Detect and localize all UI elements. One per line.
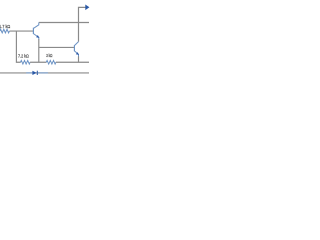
transistor Q2 collector lead: [74, 42, 78, 46]
transistor Q2 base bar: [73, 45, 75, 51]
wire R2 to R3: [30, 61, 46, 63]
diode D1 anode lead: [26, 72, 32, 74]
transistor Q2 emitter lead: [74, 51, 78, 57]
wire Q1 emitter down x38.8: [38, 39, 40, 62]
wire left vertical drop x16.4: [16, 31, 20, 62]
wire bottom rail: [0, 72, 89, 74]
resistor R1 zigzag: [0, 29, 9, 33]
wire R3 to right edge: [56, 61, 89, 63]
transistor Q2 emitter arrowhead: [76, 52, 79, 55]
wire top rail: [39, 22, 89, 24]
svg-text:1.7 kΩ: 1.7 kΩ: [0, 24, 11, 29]
wire Q1 emitter to Q2 base: [39, 46, 74, 48]
current arrow (top right): [85, 5, 89, 11]
resistor R3 zigzag: [46, 60, 56, 64]
svg-text:3 kΩ: 3 kΩ: [46, 53, 53, 58]
wire Q2 emitter down x78.5: [78, 56, 80, 62]
transistor Q1 emitter arrowhead: [36, 35, 39, 38]
svg-text:7.2 kΩ: 7.2 kΩ: [18, 54, 29, 59]
diode D1 triangle: [32, 71, 36, 75]
wire R1 to Q1 base: [9, 30, 33, 32]
diode D1 cathode lead: [38, 72, 48, 74]
transistor Q1 emitter lead: [33, 34, 38, 40]
transistor Q1 collector lead: [33, 23, 38, 29]
resistor R2 zigzag: [21, 60, 31, 64]
transistor Q1 base bar: [32, 28, 34, 34]
wire vertical supply x78.5: [79, 7, 86, 41]
diode D1 cathode bar: [36, 71, 38, 75]
